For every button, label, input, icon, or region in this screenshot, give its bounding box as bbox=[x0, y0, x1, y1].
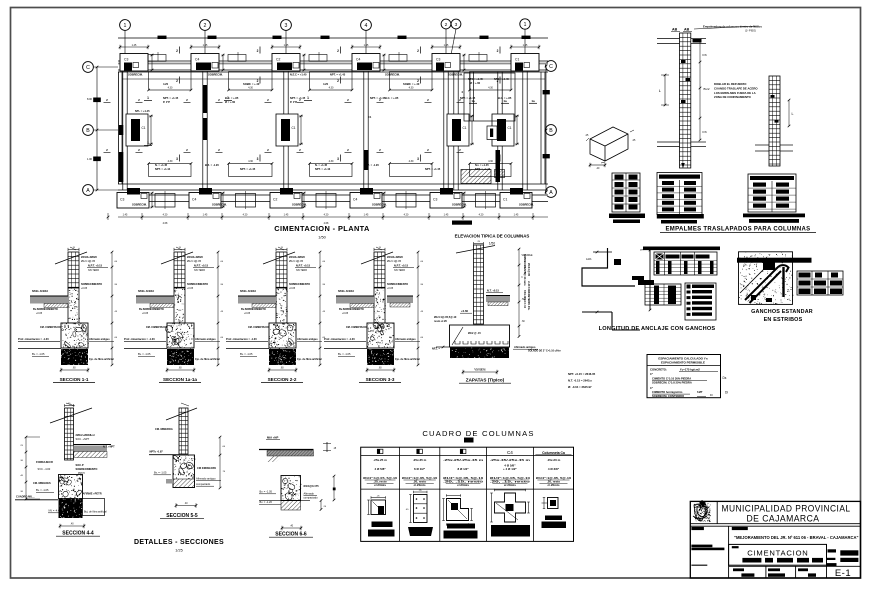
zapata column ladder bbox=[456, 241, 495, 324]
svg-text:3: 3 bbox=[497, 157, 499, 161]
svg-text:CUANDO TRASLAPE DE ACERO: CUANDO TRASLAPE DE ACERO bbox=[714, 86, 758, 90]
zapata footing box bbox=[450, 325, 510, 347]
left dim L empalmes bbox=[659, 74, 669, 107]
row bubbles right C B A bbox=[545, 61, 556, 198]
svg-text:SECCION 1a-1a: SECCION 1a-1a bbox=[163, 377, 197, 382]
svg-text:SOC. +NPT: SOC. +NPT bbox=[76, 437, 90, 441]
svg-text:Prof. cimentacion = -1.20: Prof. cimentacion = -1.20 bbox=[226, 337, 257, 341]
section 2-2 annotations bbox=[226, 255, 322, 361]
section 5-5 cimiento stones bbox=[166, 455, 195, 488]
mid-bay footing boxes bottom band bbox=[155, 191, 496, 209]
svg-text:EMPALMES TRASLAPADOS PARA COLU: EMPALMES TRASLAPADOS PARA COLUMNAS bbox=[666, 227, 811, 233]
svg-text:~: ~ bbox=[703, 520, 705, 524]
anclaje table bottom-right bbox=[685, 283, 716, 320]
svg-text:4.20: 4.20 bbox=[243, 214, 248, 217]
svg-text:C4: C4 bbox=[353, 198, 357, 202]
svg-text:Afirmado antiguo: Afirmado antiguo bbox=[395, 338, 416, 341]
anclaje table bottom-left bbox=[645, 284, 681, 305]
ganchos hook bars bbox=[740, 261, 789, 303]
svg-text:4.68: 4.68 bbox=[163, 222, 168, 225]
svg-text:C4: C4 bbox=[356, 58, 360, 62]
svg-text:12db: 12db bbox=[586, 258, 592, 261]
zapata ground hatch right bbox=[486, 289, 510, 306]
anclaje black step bbox=[632, 276, 654, 285]
svg-text:CM. CIMENTACION: CM. CIMENTACION bbox=[40, 326, 63, 329]
cuadro C4 section diagram bbox=[490, 489, 530, 537]
svg-text:.25x.25 m: .25x.25 m bbox=[373, 458, 387, 462]
svg-text:NPT. = +1.44: NPT. = +1.44 bbox=[155, 167, 171, 171]
svg-text:4.30: 4.30 bbox=[168, 160, 173, 163]
svg-text:3: 3 bbox=[176, 157, 178, 161]
svg-text:C: C bbox=[86, 65, 90, 71]
svg-text:NIV.TERR: NIV.TERR bbox=[194, 269, 205, 272]
cuadro text cells bbox=[363, 458, 571, 487]
svg-text:2: 2 bbox=[417, 49, 419, 53]
svg-text:Dl: Dl bbox=[725, 391, 728, 395]
svg-text:h/6: h/6 bbox=[703, 130, 708, 134]
svg-text:2: 2 bbox=[497, 49, 499, 53]
svg-text:B.C. = +.85: B.C. = +.85 bbox=[225, 96, 239, 100]
svg-text:Ø1/2 @ .15: Ø1/2 @ .15 bbox=[468, 332, 481, 335]
section 1a-1a annotations bbox=[124, 255, 220, 361]
section 4-4 title bbox=[56, 524, 100, 537]
svg-text:1.45: 1.45 bbox=[364, 44, 369, 47]
section 5-5 column bbox=[166, 403, 197, 454]
section 4-4 left dim chain bbox=[20, 436, 40, 501]
svg-text:2: 2 bbox=[337, 79, 339, 83]
svg-text:1.45: 1.45 bbox=[284, 214, 289, 217]
section cut markers in plan bbox=[104, 47, 501, 162]
svg-text:+0.05: +0.05 bbox=[244, 312, 251, 315]
cuadro Ca section diagram bbox=[542, 498, 567, 529]
svg-text:1: 1 bbox=[524, 22, 527, 28]
svg-text:compactado: compactado bbox=[304, 496, 319, 500]
svg-text:Bv. = -1.05: Bv. = -1.05 bbox=[32, 352, 45, 356]
svg-text:SOBRECIM.: SOBRECIM. bbox=[448, 73, 463, 77]
svg-text:N. = +1.45: N. = +1.45 bbox=[315, 163, 328, 167]
section 4-4 cimiento stones bbox=[59, 475, 84, 500]
svg-text:1.45: 1.45 bbox=[132, 44, 137, 47]
second splice ladder bbox=[755, 76, 794, 166]
svg-text:NPT. = +1.43: NPT. = +1.43 bbox=[315, 167, 331, 171]
svg-text:6 Ø 1/2": 6 Ø 1/2" bbox=[414, 467, 426, 471]
svg-text:C4: C4 bbox=[192, 198, 196, 202]
svg-text:SVC. -4.00: SVC. -4.00 bbox=[38, 467, 51, 471]
bay cimiento rectangles above bottom wall bbox=[147, 160, 512, 176]
grid bubbles top 1-4 bbox=[120, 20, 372, 55]
anclaje top black bar bbox=[643, 247, 720, 251]
svg-text:C1: C1 bbox=[463, 126, 467, 130]
svg-text:NPT. = +1.45: NPT. = +1.45 bbox=[290, 96, 306, 100]
svg-text:Cjo. de fibra artificial: Cjo. de fibra artificial bbox=[89, 358, 114, 361]
title block frame bbox=[690, 501, 860, 578]
plan top axis line bbox=[118, 36, 548, 39]
section 1-1 ground hatch bbox=[30, 296, 68, 308]
svg-text:C1: C1 bbox=[142, 126, 146, 130]
section 3-3 footing black bbox=[324, 349, 395, 366]
svg-text:C1: C1 bbox=[503, 198, 507, 202]
svg-text:DE CAJAMARCA: DE CAJAMARCA bbox=[747, 513, 820, 524]
svg-text:SOBRECIM.: SOBRECIM. bbox=[132, 203, 147, 207]
svg-text:1: 1 bbox=[147, 96, 149, 100]
svg-text:AB: AB bbox=[672, 28, 678, 32]
svg-text:5@.10 resto: 5@.10 resto bbox=[523, 272, 526, 286]
section 4-4 hatch band bbox=[74, 445, 116, 458]
svg-text:SECCION 2-2: SECCION 2-2 bbox=[268, 377, 297, 382]
right end room outline bbox=[461, 72, 537, 140]
svg-text:Ø1/4 1@.05: Ø1/4 1@.05 bbox=[81, 259, 96, 263]
svg-text:Ø1/4 1@.05: Ø1/4 1@.05 bbox=[187, 259, 202, 263]
svg-text:4.20: 4.20 bbox=[163, 82, 169, 86]
svg-text:NPT. = +1.45: NPT. = +1.45 bbox=[330, 73, 346, 77]
svg-text:NPT. +0.15 = 2646.05: NPT. +0.15 = 2646.05 bbox=[568, 372, 596, 376]
svg-text:Afirmado antiguo: Afirmado antiguo bbox=[196, 477, 216, 481]
svg-text:C1: C1 bbox=[292, 126, 296, 130]
svg-text:Buj. de fibra artificial: Buj. de fibra artificial bbox=[84, 511, 107, 514]
svg-text:8.00: 8.00 bbox=[87, 97, 93, 101]
left level notes bbox=[568, 372, 596, 389]
section 2-2 ground hatch bbox=[238, 296, 276, 308]
svg-text:1.45: 1.45 bbox=[284, 44, 289, 47]
svg-text:Bv. = -1.05: Bv. = -1.05 bbox=[138, 352, 151, 356]
svg-text:SOBRECIMIENTO: SOBRECIMIENTO bbox=[387, 283, 408, 286]
zapata annotations bbox=[432, 309, 561, 353]
svg-text:DETALLES - SECCIONES: DETALLES - SECCIONES bbox=[134, 539, 224, 546]
svg-text:N.T. +NPT: N.T. +NPT bbox=[103, 446, 115, 449]
svg-text:B.C. = +.85: B.C. = +.85 bbox=[385, 96, 399, 100]
section 1-1 base dim and title bbox=[53, 368, 95, 383]
anclaje table top bbox=[654, 252, 717, 275]
svg-text:+0.05: +0.05 bbox=[81, 287, 88, 290]
svg-text:+0.05: +0.05 bbox=[36, 312, 43, 315]
svg-text:1.45: 1.45 bbox=[203, 44, 208, 47]
svg-text:B: B bbox=[86, 128, 90, 134]
svg-text:+ 4 Ø 1/2": + 4 Ø 1/2" bbox=[503, 467, 517, 471]
svg-text:1a: 1a bbox=[531, 99, 535, 103]
section 3-3 sobrecimiento bbox=[374, 288, 386, 323]
section 4-4 column bbox=[50, 403, 92, 460]
sheet number E-1 bbox=[835, 568, 851, 579]
svg-text:3: 3 bbox=[337, 157, 339, 161]
section 3-3 cimiento stones bbox=[367, 322, 394, 349]
svg-text:4 Ø 5/8": 4 Ø 5/8" bbox=[374, 467, 386, 471]
svg-text:AB: AB bbox=[684, 28, 690, 32]
section 1a-1a right dim chain bbox=[217, 251, 224, 367]
svg-text:NTB = +1.40: NTB = +1.40 bbox=[494, 77, 509, 81]
svg-text:Bv/2: Bv/2 bbox=[704, 87, 710, 91]
cuadro C3 section diagram bbox=[442, 494, 477, 538]
svg-text:NIV.TERR: NIV.TERR bbox=[296, 269, 307, 272]
cuadro C2 section diagram bbox=[405, 490, 433, 536]
row B footings C1 bbox=[126, 114, 519, 146]
svg-text:1.45: 1.45 bbox=[203, 214, 208, 217]
zapata right dim chain bbox=[518, 248, 533, 338]
svg-text:SECCION 1-1: SECCION 1-1 bbox=[60, 377, 89, 382]
svg-text:Bv.SOBRECIMIENTO: Bv.SOBRECIMIENTO bbox=[33, 308, 58, 311]
svg-text:1.45: 1.45 bbox=[523, 44, 528, 47]
svg-text:FORRAJE/CR: FORRAJE/CR bbox=[36, 460, 53, 464]
svg-text:C3: C3 bbox=[120, 198, 124, 202]
svg-text:2Ø1/2+2Ø3/8+H: 2Ø1/2+2Ø3/8+H bbox=[76, 433, 95, 437]
svg-text:+0.05: +0.05 bbox=[289, 287, 296, 290]
section 2-2 base dim and title bbox=[261, 368, 303, 383]
svg-text:CUADRO MIL...: CUADRO MIL... bbox=[16, 495, 35, 499]
svg-text:compactado: compactado bbox=[196, 482, 211, 486]
svg-text:C1: C1 bbox=[368, 115, 372, 119]
svg-text:Cº: Cº bbox=[650, 372, 653, 376]
svg-text:1.45: 1.45 bbox=[444, 214, 449, 217]
svg-text:Prof. cimentacion = -1.20: Prof. cimentacion = -1.20 bbox=[324, 337, 355, 341]
svg-text:SOBRECIM.: SOBRECIM. bbox=[128, 73, 143, 77]
svg-text:4.30: 4.30 bbox=[488, 87, 493, 90]
svg-text:Bv.SOBRECIMIENTO: Bv.SOBRECIMIENTO bbox=[241, 308, 266, 311]
ganchos right table bbox=[797, 271, 843, 295]
svg-text:CM. MINEROA: CM. MINEROA bbox=[155, 427, 173, 431]
svg-text:+0.05: +0.05 bbox=[142, 312, 149, 315]
svg-text:4.20: 4.20 bbox=[323, 82, 329, 86]
svg-text:4.30: 4.30 bbox=[488, 160, 493, 163]
bottom row footings C3 C4 C2 C4 C3 C1 bbox=[117, 188, 532, 208]
svg-text:SOBRECIM.: SOBRECIM. bbox=[212, 203, 227, 207]
svg-text:Ø1/4@0.175: Ø1/4@0.175 bbox=[304, 484, 320, 488]
svg-text:CM. CIMENTACION: CM. CIMENTACION bbox=[346, 326, 369, 329]
section 6-6 cimiento bbox=[281, 476, 301, 511]
svg-text:C2: C2 bbox=[273, 198, 277, 202]
svg-text:1a: 1a bbox=[503, 99, 507, 103]
svg-text:NTL = +1.45: NTL = +1.45 bbox=[135, 109, 150, 113]
svg-text:E-1: E-1 bbox=[835, 568, 851, 579]
svg-text:2: 2 bbox=[445, 22, 448, 28]
svg-text:Bv. = -1.05: Bv. = -1.05 bbox=[154, 471, 167, 475]
svg-text:DOBLAR EL REFUERZO: DOBLAR EL REFUERZO bbox=[714, 82, 747, 86]
svg-text:4.20: 4.20 bbox=[404, 214, 409, 217]
svg-text:3: 3 bbox=[455, 22, 458, 28]
title block right column marks bbox=[827, 544, 861, 566]
cuadro table frame bbox=[361, 447, 574, 541]
svg-text:CIMENTACION - PLANTA: CIMENTACION - PLANTA bbox=[274, 224, 370, 233]
section 1-1 cimiento stones bbox=[61, 323, 89, 349]
svg-text:4.30: 4.30 bbox=[248, 87, 253, 90]
section 4-4 annotations bbox=[15, 433, 107, 514]
svg-text:Prof. cimentacion = -1.20: Prof. cimentacion = -1.20 bbox=[124, 337, 155, 341]
svg-text:L: L bbox=[792, 112, 794, 116]
svg-text:Bv. = -1.05: Bv. = -1.05 bbox=[36, 488, 49, 492]
svg-text:CM. CIMENTACION: CM. CIMENTACION bbox=[248, 326, 271, 329]
svg-text:Bv. = -1.05: Bv. = -1.05 bbox=[338, 352, 351, 356]
cuadro C1 section diagram bbox=[367, 495, 394, 536]
svg-text:2: 2 bbox=[204, 23, 207, 29]
svg-text:1.00: 1.00 bbox=[87, 157, 93, 161]
svg-text:Variable: Variable bbox=[474, 368, 486, 372]
section 3-3 column bbox=[361, 247, 393, 288]
svg-text:CM. MINGOES: CM. MINGOES bbox=[33, 481, 51, 485]
svg-text:"MEJORAMIENTO DEL JR. Nº 611 0: "MEJORAMIENTO DEL JR. Nº 611 06 - BRAVAL… bbox=[734, 535, 859, 541]
vertical foundation walls on grid lines bbox=[123, 72, 527, 191]
svg-text:C1: C1 bbox=[508, 126, 512, 130]
section 5-5 annotations bbox=[149, 427, 221, 486]
svg-text:4.30: 4.30 bbox=[168, 87, 173, 90]
grid bubble 1 right bbox=[520, 19, 530, 55]
svg-text:4.20: 4.20 bbox=[479, 214, 484, 217]
bay cimiento rectangles below top wall bbox=[147, 72, 512, 92]
svg-text:CIMENTACION: CIMENTACION bbox=[747, 548, 808, 557]
svg-text:Afirmado antiguo: Afirmado antiguo bbox=[89, 338, 110, 341]
svg-text:SOBRECIM.: SOBRECIM. bbox=[208, 73, 223, 77]
svg-text:N.E.C = +1.40: N.E.C = +1.40 bbox=[290, 73, 307, 77]
svg-text:Ø1/4 1@.05: Ø1/4 1@.05 bbox=[387, 259, 402, 263]
svg-text:SOBRECIMIENTO: SOBRECIMIENTO bbox=[187, 283, 208, 286]
section 6-6 right dims bbox=[320, 475, 336, 511]
svg-text:CIMIENTO Cº1:10 30% PIEDRA: CIMIENTO Cº1:10 30% PIEDRA bbox=[652, 377, 691, 381]
svg-text:c/.20 CONCRETO: c/.20 CONCRETO bbox=[527, 281, 530, 301]
svg-text:B: B bbox=[549, 128, 553, 134]
top foundation wall strip bbox=[118, 61, 548, 79]
svg-text:DI: DI bbox=[710, 393, 713, 397]
svg-text:1.45: 1.45 bbox=[364, 214, 369, 217]
svg-text:4: 4 bbox=[365, 23, 368, 29]
svg-text:1/50: 1/50 bbox=[489, 242, 495, 246]
svg-text:1: 1 bbox=[124, 23, 127, 29]
svg-text:Ø = +.60: Ø = +.60 bbox=[225, 100, 236, 104]
right vertical dimension line bbox=[543, 65, 550, 194]
svg-text:2: 2 bbox=[176, 79, 178, 83]
section 3-3 annotations bbox=[324, 255, 420, 361]
svg-text:Afirmado antiguo: Afirmado antiguo bbox=[195, 338, 216, 341]
svg-text:N.P.T. +0.15: N.P.T. +0.15 bbox=[88, 264, 103, 268]
title longitud de anclaje con ganchos bbox=[599, 326, 716, 332]
section 2-2 column bbox=[263, 247, 295, 288]
column fills on walls row B bbox=[203, 85, 503, 182]
svg-text:8 Ø 1/2": 8 Ø 1/2" bbox=[457, 467, 469, 471]
svg-text:2: 2 bbox=[176, 49, 178, 53]
section 1a-1a sobrecimiento bbox=[174, 288, 185, 324]
section 4-4 footing black bbox=[59, 499, 105, 519]
svg-text:N. = +1.45: N. = +1.45 bbox=[155, 163, 168, 167]
top row footings C3 C4 C2 C4 C3 bbox=[119, 44, 541, 71]
section 3-3 ground hatch bbox=[336, 296, 413, 308]
svg-text:N.P.T. +0.15: N.P.T. +0.15 bbox=[194, 264, 209, 268]
svg-text:C3: C3 bbox=[433, 198, 437, 202]
svg-text:SOBRECIMIENTO: SOBRECIMIENTO bbox=[76, 467, 98, 471]
svg-text:P. 1ºP: P. 1ºP bbox=[163, 100, 170, 104]
svg-text:1: 1 bbox=[147, 141, 149, 145]
section 1-1 sobrecimiento bbox=[68, 288, 80, 324]
bottom foundation wall strip bbox=[118, 184, 548, 202]
section 1-1 annotations bbox=[18, 255, 114, 361]
svg-text:GANCHOS ESTANDAR: GANCHOS ESTANDAR bbox=[751, 309, 813, 315]
svg-text:C1: C1 bbox=[515, 58, 519, 62]
svg-text:A: A bbox=[86, 188, 90, 194]
svg-text:3: 3 bbox=[417, 157, 419, 161]
svg-text:+30% P.G.: +30% P.G. bbox=[527, 299, 530, 311]
svg-text:NPT. = +1.45: NPT. = +1.45 bbox=[425, 167, 441, 171]
svg-text:1.45: 1.45 bbox=[123, 214, 128, 217]
svg-text:SOBRECIM.: SOBRECIM. bbox=[385, 73, 400, 77]
svg-text:4.30: 4.30 bbox=[409, 87, 414, 90]
svg-text:h/6: h/6 bbox=[703, 53, 708, 57]
svg-text:2Ø1/2+2Ø3/8: 2Ø1/2+2Ø3/8 bbox=[289, 255, 305, 259]
right dims h/6 Bv/2 bbox=[699, 39, 710, 142]
svg-text:C3: C3 bbox=[436, 58, 440, 62]
svg-text:NIVEL ACERA: NIVEL ACERA bbox=[138, 290, 154, 293]
svg-text:SOBRECIM. Cº1:8 25% PIEDRA: SOBRECIM. Cº1:8 25% PIEDRA bbox=[652, 381, 692, 385]
svg-text:NIVEL ACERA: NIVEL ACERA bbox=[338, 290, 354, 293]
svg-text:Columneta Ca: Columneta Ca bbox=[542, 451, 565, 455]
svg-text:Bv.SOBRECIMIENTO: Bv.SOBRECIMIENTO bbox=[339, 308, 364, 311]
svg-text:Afirmado: Afirmado bbox=[304, 492, 315, 496]
svg-text:1/25: 1/25 bbox=[175, 549, 182, 553]
section 1a-1a base dim and title bbox=[159, 368, 201, 383]
title block bottom row bbox=[729, 566, 827, 578]
hatched wall elevation patch bbox=[461, 170, 505, 184]
svg-text:Cjo. de fibra artificial: Cjo. de fibra artificial bbox=[395, 358, 420, 361]
svg-text:L: L bbox=[757, 282, 759, 286]
svg-text:LOS EMPALMES FUERA DE LA: LOS EMPALMES FUERA DE LA bbox=[714, 91, 756, 95]
section 5-5 title bbox=[160, 503, 204, 519]
svg-text:NPTo -0.97: NPTo -0.97 bbox=[150, 450, 164, 454]
splice table middle bbox=[657, 173, 704, 224]
svg-text:CM 2/MINGOPA: CM 2/MINGOPA bbox=[197, 466, 216, 470]
svg-text:B.Z. = -1.20: B.Z. = -1.20 bbox=[205, 163, 219, 167]
section 1a-1a ground hatch bbox=[136, 296, 174, 308]
svg-text:SECCION 6-6: SECCION 6-6 bbox=[275, 532, 307, 538]
sobrecimiento steps above top wall bbox=[148, 52, 487, 61]
svg-text:Ds: Ds bbox=[723, 376, 727, 380]
svg-text:N.T. +0.15: N.T. +0.15 bbox=[487, 289, 499, 293]
svg-text:SOLADO DE 2" C=1:10 c/Hor: SOLADO DE 2" C=1:10 c/Hor bbox=[528, 350, 561, 353]
svg-text:Cjo. de fibra artificial: Cjo. de fibra artificial bbox=[297, 358, 322, 361]
svg-text:CONCRETO:: CONCRETO: bbox=[650, 368, 667, 372]
svg-text:3: 3 bbox=[257, 157, 259, 161]
svg-text:.25x.35 m: .25x.35 m bbox=[413, 458, 427, 462]
empalme note text block bbox=[714, 82, 758, 99]
svg-text:SOC.P: SOC.P bbox=[76, 463, 84, 467]
svg-text:Prof. cimentacion = -1.20: Prof. cimentacion = -1.20 bbox=[18, 337, 49, 341]
svg-text:C2: C2 bbox=[276, 58, 280, 62]
svg-text:1.45: 1.45 bbox=[444, 44, 449, 47]
section 1a-1a cimiento stones bbox=[166, 323, 195, 349]
svg-text:Ø = +.60: Ø = +.60 bbox=[470, 81, 481, 85]
svg-text:SECCION 3-3: SECCION 3-3 bbox=[366, 377, 395, 382]
svg-text:N.P.T. +0.15: N.P.T. +0.15 bbox=[296, 264, 311, 268]
scale bar under right section bbox=[452, 221, 472, 225]
svg-text:CICLOPEO 1:10: CICLOPEO 1:10 bbox=[523, 290, 526, 309]
svg-text:1/50: 1/50 bbox=[318, 236, 325, 240]
svg-text:Ø: -0.04 = 2645.97: Ø: -0.04 = 2645.97 bbox=[568, 385, 592, 389]
anclaje corner bracket diagram bbox=[582, 248, 656, 330]
svg-text:4.30: 4.30 bbox=[329, 160, 334, 163]
svg-text:N.P.T. +0.15: N.P.T. +0.15 bbox=[394, 264, 409, 268]
plan edge walls bbox=[119, 72, 546, 185]
svg-text:1a: 1a bbox=[471, 99, 475, 103]
title elevacion tipica de columnas bbox=[455, 234, 530, 246]
section 6-6 top band detail bbox=[259, 436, 337, 463]
svg-text:+0.60: +0.60 bbox=[461, 309, 469, 313]
svg-text:Ø: Ø bbox=[762, 287, 764, 291]
section 1a-1a column bbox=[161, 247, 193, 288]
svg-text:Bv.SOBRECIMIENTO: Bv.SOBRECIMIENTO bbox=[139, 308, 164, 311]
left vertical dimension line bbox=[87, 66, 101, 192]
svg-text:P. 1ºP: P. 1ºP bbox=[290, 100, 297, 104]
svg-text:1: 1 bbox=[307, 96, 309, 100]
svg-text:CUADRO DE COLUMNAS: CUADRO DE COLUMNAS bbox=[422, 429, 534, 438]
zapata solado black slab bbox=[436, 346, 510, 359]
svg-text:SOBR. = +.40: SOBR. = +.40 bbox=[243, 82, 260, 86]
ganchos top black bar bbox=[737, 258, 812, 263]
section 6-6 title bbox=[269, 526, 313, 538]
row bubbles left C B A bbox=[83, 62, 118, 196]
section 1-1 footing black bbox=[18, 349, 89, 366]
